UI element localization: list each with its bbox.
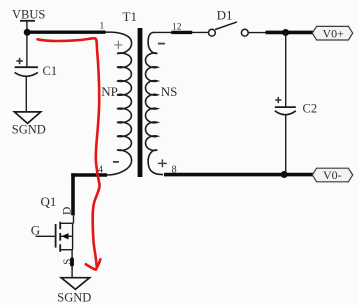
- svg-text:T1: T1: [123, 9, 137, 24]
- svg-text:12: 12: [172, 22, 182, 32]
- svg-text:SGND: SGND: [57, 290, 91, 304]
- svg-text:C2: C2: [303, 102, 318, 116]
- svg-text:S: S: [61, 259, 73, 265]
- svg-text:SGND: SGND: [12, 122, 46, 136]
- svg-text:8: 8: [172, 164, 177, 175]
- svg-text:NP: NP: [101, 84, 118, 99]
- svg-text:Q1: Q1: [41, 194, 57, 209]
- svg-text:VBUS: VBUS: [12, 8, 45, 22]
- svg-text:C1: C1: [43, 64, 58, 78]
- svg-text:V0-: V0-: [323, 168, 342, 182]
- svg-text:D: D: [62, 207, 74, 215]
- svg-text:V0+: V0+: [323, 26, 345, 40]
- svg-text:1: 1: [100, 21, 105, 31]
- svg-text:D1: D1: [217, 7, 233, 22]
- svg-text:G: G: [31, 222, 40, 237]
- svg-text:NS: NS: [161, 84, 178, 99]
